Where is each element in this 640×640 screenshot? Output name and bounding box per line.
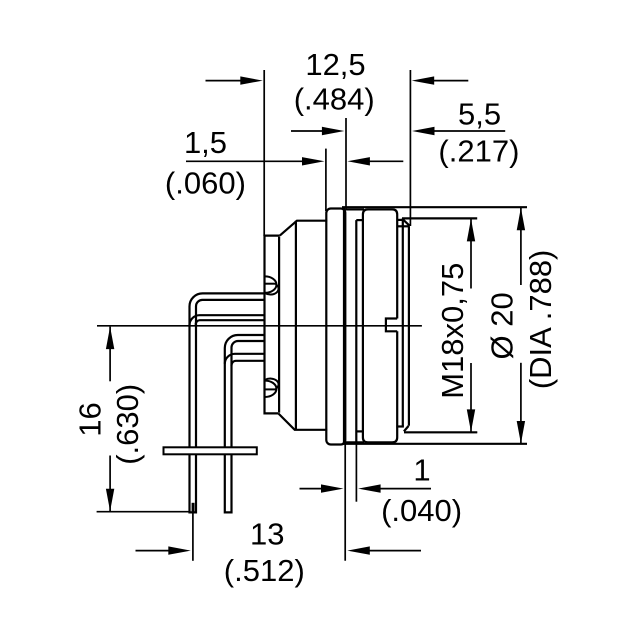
top chamfer tick [397, 225, 410, 227]
solder tab upper [265, 276, 279, 294]
svg-text:16: 16 [73, 402, 108, 436]
dim 13 left shaft [136, 550, 171, 552]
arrowhead 5,5 right [412, 127, 435, 135]
dim 1 right shaft [379, 488, 432, 490]
dim 16 shaft upper [109, 327, 111, 382]
ring bottom edge extension to narrow ring [345, 441, 364, 443]
thread runout line B [402, 218, 404, 426]
dim 12,5 left shaft [206, 80, 244, 82]
dim 13 right shaft [368, 550, 422, 552]
arrowhead 16 top [106, 327, 114, 350]
dim 1 left shaft [300, 488, 324, 490]
svg-text:(.512): (.512) [224, 553, 305, 588]
svg-text:13: 13 [250, 517, 284, 552]
solder tab lower [265, 379, 279, 397]
thread top line [402, 217, 477, 219]
large ring (gasket), right edge interrupted by keyway [363, 209, 397, 442]
flange disc left edge [343, 208, 345, 444]
svg-text:5,5: 5,5 [458, 97, 501, 132]
dim 12,5 extension right [409, 70, 411, 226]
arrowhead 1,5 right [347, 157, 370, 165]
dim 16 bottom extension [97, 511, 191, 513]
flange disc right edge [355, 220, 357, 441]
svg-text:(.040): (.040) [381, 493, 462, 528]
arrowhead 1 right [358, 484, 381, 492]
bottom outline of flange (extends as extension line for dia 20) [342, 443, 527, 445]
pin 3 [225, 335, 264, 512]
dim 5,5 left shaft [291, 130, 325, 132]
dim 1,5 left shaft [186, 160, 305, 162]
short tick A-B top [397, 219, 405, 221]
tick disc to ring top [356, 219, 363, 221]
arrowhead 16 bottom [106, 489, 114, 512]
dim 13 extension over pin tip [192, 503, 195, 512]
arrowhead M18 top [467, 219, 475, 242]
dim 13 left extension [192, 508, 194, 561]
svg-text:(DIA .788): (DIA .788) [523, 250, 558, 390]
dim 5,5 extension left [345, 118, 347, 210]
top outline of flange (extends as extension line for dia 20) [342, 206, 527, 208]
arrowhead 5,5 left [322, 127, 345, 135]
center line [97, 325, 422, 327]
arrowhead dia20 bottom [517, 421, 525, 444]
arrowhead dia20 top [517, 208, 525, 231]
arrowhead M18 bottom [467, 409, 475, 432]
arrowhead 12,5 left [240, 76, 262, 84]
cone edge line [295, 221, 297, 430]
cone transition top [280, 221, 327, 236]
dim 1,5 extension left [325, 149, 327, 211]
arrowhead 13 right [347, 546, 370, 554]
thread bottom line [404, 431, 477, 433]
svg-text:M18x0,75: M18x0,75 [435, 263, 470, 399]
cone transition bottom [278, 413, 327, 429]
dim M18 shaft upper [470, 219, 472, 289]
dim dia20 shaft lower [520, 363, 522, 444]
keyway notch [386, 319, 397, 332]
dim M18 shaft lower [470, 363, 472, 432]
svg-text:(.060): (.060) [165, 166, 246, 201]
pin 2 [190, 315, 265, 325]
narrow ring [326, 209, 345, 445]
dim 1,5 right shaft [367, 160, 403, 162]
pin 4 [225, 354, 264, 366]
svg-text:1: 1 [413, 453, 430, 488]
top chamfer diagonal [402, 219, 409, 226]
svg-text:1,5: 1,5 [184, 125, 227, 160]
rear cap (left face of housing) [265, 236, 280, 414]
mounting bar (occludes pins) [164, 447, 257, 454]
dim 12,5 right shaft [432, 80, 469, 82]
dim M18 bottom extension [404, 431, 477, 433]
dim dia20 shaft upper [520, 208, 522, 285]
svg-text:(.630): (.630) [110, 384, 145, 465]
pin 1 [190, 293, 265, 512]
arrowhead 1,5 left [302, 157, 325, 165]
dim 12,5 extension left [263, 70, 265, 236]
svg-text:12,5: 12,5 [305, 47, 365, 82]
arrowhead 1 left [321, 484, 344, 492]
bottom chamfer diagonal [404, 426, 409, 432]
dim 5,5 right shaft [432, 130, 505, 132]
svg-text:(.217): (.217) [438, 133, 519, 168]
arrowhead 13 left [168, 546, 191, 554]
arrowhead 12,5 right [412, 76, 435, 84]
dim 13 right extension [344, 445, 346, 561]
dim 16 shaft lower [109, 456, 111, 512]
svg-text:Ø 20: Ø 20 [485, 292, 520, 359]
tick disc to ring bottom [356, 430, 363, 432]
bottom chamfer tick [396, 425, 404, 427]
svg-text:(.484): (.484) [294, 82, 375, 117]
front face line C [408, 226, 410, 426]
ring top edge extension to narrow ring [345, 208, 364, 210]
dim 1 right extension [355, 444, 357, 502]
